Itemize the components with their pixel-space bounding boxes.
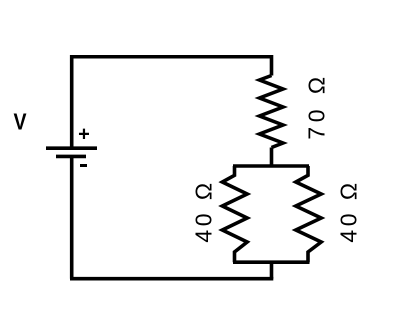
battery V: bottom plate (negative, short): [56, 155, 86, 159]
wire: parallel top bar: [233, 164, 309, 168]
wire: bottom bar center down to bottom rail: [270, 262, 274, 279]
wire: parallel bottom bar: [233, 260, 310, 264]
label 70 ohm (rotated): [303, 73, 330, 140]
label 40 ohm right (rotated): [335, 179, 362, 242]
resistor R3 40 ohm (right branch): [296, 166, 321, 262]
battery V: top plate (positive, long): [46, 146, 97, 150]
label V (source name): [13, 108, 26, 135]
wire: left rail lower (battery minus to bottom rail): [70, 156, 74, 278]
resistor R1 70 ohm (vertical zigzag): [260, 76, 284, 148]
wire: R1 bottom lead to parallel top bar: [270, 148, 274, 167]
label - (battery negative): [80, 164, 87, 167]
wire: bottom rail: [70, 277, 273, 281]
label 40 ohm left (rotated): [190, 179, 217, 242]
wire: left rail top + top rail + R1 top lead: [72, 57, 272, 148]
resistor R2 40 ohm (left branch): [222, 166, 247, 262]
label + (battery positive): [78, 124, 90, 147]
